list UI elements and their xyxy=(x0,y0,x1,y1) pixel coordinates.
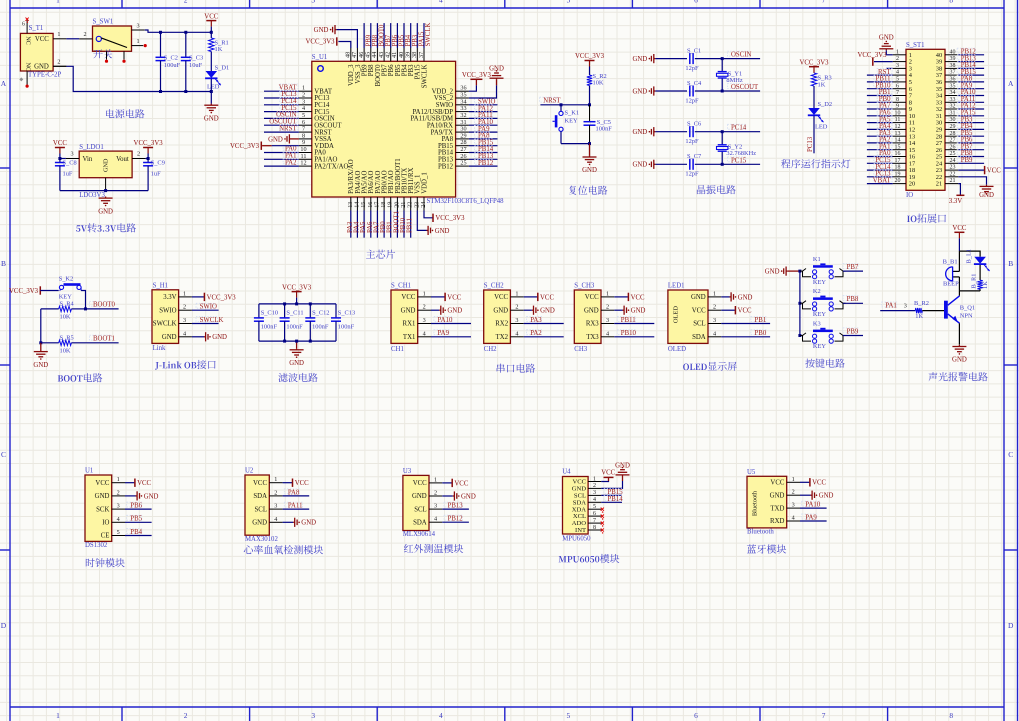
section label 时钟模块 xyxy=(86,558,125,567)
svg-text:K3: K3 xyxy=(813,320,821,327)
power port VCC_3V3 at VDDA pin 9 xyxy=(262,145,272,147)
svg-text:1: 1 xyxy=(593,476,596,482)
svg-text:PB12: PB12 xyxy=(448,516,464,523)
wire OSCIN xyxy=(695,58,760,60)
svg-text:Link: Link xyxy=(153,345,166,352)
wire net SWIO xyxy=(469,104,498,106)
wire net PA15 top xyxy=(416,23,418,48)
ST1 pin 31 xyxy=(945,115,958,117)
wire net SWIO H1 xyxy=(192,309,219,311)
U1 pin 23 VSS_1 xyxy=(416,197,418,211)
ST1 pin 23 xyxy=(945,169,958,171)
svg-text:Vout: Vout xyxy=(116,156,129,163)
svg-text:4: 4 xyxy=(439,711,443,720)
ground GND H1 xyxy=(192,336,204,338)
wire net PA0 ST1 xyxy=(867,156,893,158)
keys left rail xyxy=(799,271,801,335)
svg-text:GND: GND xyxy=(819,493,834,500)
section label OLED显示屏 xyxy=(683,362,737,371)
svg-text:VCC: VCC xyxy=(35,36,49,43)
svg-text:12pF: 12pF xyxy=(685,138,699,145)
S_CH3 pin 1 VCC xyxy=(601,296,614,298)
S_CH2 pin 3 RX2 xyxy=(510,323,523,325)
svg-text:GND: GND xyxy=(631,308,646,315)
svg-text:8: 8 xyxy=(896,97,899,103)
svg-text:S_C10: S_C10 xyxy=(261,310,278,317)
svg-text:S_H1: S_H1 xyxy=(153,283,169,290)
U1 pin 3 PC14 xyxy=(299,104,312,106)
svg-text:S_D2: S_D2 xyxy=(818,101,833,108)
LED1 pin 1 GND xyxy=(708,296,721,298)
svg-text:S_CH3: S_CH3 xyxy=(574,283,595,290)
svg-text:VCC: VCC xyxy=(494,294,508,301)
svg-text:PC15: PC15 xyxy=(731,157,747,164)
svg-text:21: 21 xyxy=(936,181,942,188)
svg-text:B_R2: B_R2 xyxy=(914,300,929,307)
wire net PB9 top xyxy=(363,23,365,48)
svg-text:2: 2 xyxy=(713,304,716,311)
wire net BOOT1 bottom xyxy=(396,211,398,238)
svg-text:2: 2 xyxy=(57,58,60,65)
ST1 pin 11 xyxy=(893,122,906,124)
wire PC14 xyxy=(695,131,760,133)
regulator LDO1 LDO3V3 xyxy=(79,151,132,178)
svg-text:VCC_3V3: VCC_3V3 xyxy=(9,288,39,295)
wire GND rail power circuit xyxy=(53,65,66,67)
ground GND at VSS_2 pin 35 xyxy=(469,85,497,98)
svg-text:S_C8: S_C8 xyxy=(63,160,77,167)
wire LED branch to collector xyxy=(959,290,980,292)
svg-text:2: 2 xyxy=(117,489,120,496)
svg-text:U4: U4 xyxy=(562,469,571,476)
U5 pin 2 GND xyxy=(787,494,800,496)
U1 pin 1 VBAT xyxy=(299,90,312,92)
LDO GND stub and rail xyxy=(105,178,107,191)
svg-text:1: 1 xyxy=(434,476,437,483)
H1 pin 4 GND xyxy=(179,336,192,338)
section label 5V转3.3V电路 xyxy=(76,223,136,232)
svg-text:VCC: VCC xyxy=(137,480,151,487)
U1 pin 9 VDDA xyxy=(299,145,312,147)
svg-text:CE: CE xyxy=(101,533,110,540)
wire net PB1 LED1 xyxy=(721,323,770,325)
wire net PB11 ST1 xyxy=(867,81,893,83)
svg-text:SCL: SCL xyxy=(255,506,267,513)
wire net PB10 S_CH3 xyxy=(614,336,654,338)
svg-text:A: A xyxy=(1008,79,1014,88)
wire net PA9 xyxy=(469,131,498,133)
svg-text:10K: 10K xyxy=(60,348,71,355)
svg-text:100uF: 100uF xyxy=(164,62,181,69)
svg-text:PA2/TX/AO: PA2/TX/AO xyxy=(314,163,348,170)
svg-text:KEY: KEY xyxy=(565,118,579,125)
svg-text:MLX90614: MLX90614 xyxy=(403,531,436,538)
svg-text:PB11: PB11 xyxy=(407,218,414,233)
ST1 pin 12 xyxy=(893,128,906,130)
ST1 pin 33 xyxy=(945,101,958,103)
svg-text:1uF: 1uF xyxy=(63,170,73,177)
svg-text:SDA: SDA xyxy=(253,493,267,500)
svg-text:VCC_3V3: VCC_3V3 xyxy=(134,140,164,147)
ST1 pin 40 xyxy=(945,54,958,56)
wire net NRST xyxy=(264,131,299,133)
wire net PA1 ST1 xyxy=(867,149,893,151)
svg-text:32.768KHz: 32.768KHz xyxy=(726,150,756,157)
svg-text:PB5: PB5 xyxy=(130,516,142,523)
svg-text:PB9: PB9 xyxy=(847,328,859,335)
svg-text:RX2: RX2 xyxy=(495,321,508,328)
svg-text:SCL: SCL xyxy=(693,321,705,328)
svg-text:GND: GND xyxy=(144,493,159,500)
U1 pin 38 PA15 xyxy=(416,48,418,61)
ST1 pin 3 xyxy=(893,67,906,69)
ST1 pin 15 xyxy=(893,149,906,151)
module U3 xyxy=(403,475,429,530)
svg-text:TX3: TX3 xyxy=(586,334,599,341)
U1 pin 34 SWIO xyxy=(456,104,469,106)
wire net PB13 xyxy=(469,158,498,160)
svg-text:RX3: RX3 xyxy=(586,321,599,328)
U3 pin 3 SCL xyxy=(429,508,442,510)
wire net PA8 U2 xyxy=(283,495,310,497)
svg-text:U1: U1 xyxy=(85,468,93,475)
svg-text:VCC: VCC xyxy=(447,294,461,301)
no-connect U4 pin 6 xyxy=(601,515,604,518)
svg-text:IO: IO xyxy=(102,520,109,527)
S_CH1 pin 3 RX1 xyxy=(418,323,431,325)
svg-text:PA2: PA2 xyxy=(530,330,542,337)
svg-text:PB11: PB11 xyxy=(621,317,636,324)
LDO pin 2 xyxy=(132,158,145,160)
ST1 pin 21 xyxy=(945,183,958,185)
U1 pin 10 PA0 xyxy=(299,152,312,154)
svg-text:12pF: 12pF xyxy=(685,65,699,72)
wire net PB6 ST1 right xyxy=(958,142,984,144)
wire T1 VCC to SW1 xyxy=(66,38,79,40)
power port VCC alarm xyxy=(954,231,964,233)
wire net PA10 ST1 right xyxy=(958,95,984,97)
svg-text:VDD_1: VDD_1 xyxy=(421,172,428,194)
wire K2 to BOOT0 xyxy=(81,291,85,309)
wire net PA12 ST1 right xyxy=(958,108,984,110)
wire net PB13 U3 xyxy=(442,508,469,510)
power port VCC_3V3 at VDD_1 pin 24 xyxy=(424,211,433,218)
U5 pin 3 TXD xyxy=(787,507,800,509)
wire net PB10 ST1 xyxy=(867,88,893,90)
U1 pin 41 PB5 xyxy=(396,48,398,61)
svg-text:GND: GND xyxy=(572,486,587,493)
wire net PB12 xyxy=(469,165,498,167)
svg-text:2: 2 xyxy=(515,304,518,311)
ground GND ST1 pin22 xyxy=(958,177,986,185)
capacitor S_C13 100nF xyxy=(335,304,337,318)
svg-text:34: 34 xyxy=(950,90,956,96)
U1 pin 19 PB1/AO xyxy=(390,197,392,211)
svg-text:9: 9 xyxy=(896,104,899,110)
U1 pin 16 PA6/AO xyxy=(370,197,372,211)
svg-text:25: 25 xyxy=(950,151,956,157)
svg-text:VCC: VCC xyxy=(95,480,109,487)
U1 pin 7 NRST xyxy=(299,131,312,133)
S_CH1 pin 4 TX1 xyxy=(418,336,431,338)
wire net NRST reset xyxy=(540,104,589,106)
svg-text:SDA: SDA xyxy=(413,519,427,526)
U1 pin 5 CE xyxy=(112,535,125,537)
svg-text:100nF: 100nF xyxy=(338,324,355,331)
no-connect U4 pin 7 xyxy=(601,522,604,525)
T1 top stub no-connect xyxy=(26,20,28,33)
svg-text:GND: GND xyxy=(289,360,304,367)
junction C2 top xyxy=(159,31,162,34)
svg-text:5: 5 xyxy=(593,504,596,510)
svg-text:1K: 1K xyxy=(982,281,989,289)
U4 pin 5 XDA xyxy=(588,508,601,510)
U1 pin 48 VDD_3 xyxy=(350,48,352,61)
svg-text:1: 1 xyxy=(56,0,60,5)
capacitor S_C4 12pF xyxy=(689,86,691,97)
svg-text:GND: GND xyxy=(98,208,113,215)
ST1 pin 5 xyxy=(893,81,906,83)
U1 pin 27 PB14 xyxy=(456,152,469,154)
S_CH3 pin 3 RX3 xyxy=(601,323,614,325)
svg-text:20: 20 xyxy=(909,181,915,188)
wire net PA5 bottom xyxy=(363,211,365,238)
svg-text:40: 40 xyxy=(950,49,956,55)
svg-text:CH1: CH1 xyxy=(391,346,404,353)
svg-text:K2: K2 xyxy=(813,288,821,295)
svg-text:1: 1 xyxy=(792,476,795,483)
ST1 pin 14 xyxy=(893,142,906,144)
svg-text:1: 1 xyxy=(183,290,186,297)
svg-text:S_SW1: S_SW1 xyxy=(93,19,114,26)
power port VCC_3V3 ST1 pin2 xyxy=(874,61,893,63)
section label 程序运行指示灯 xyxy=(781,159,850,168)
svg-text:GND: GND xyxy=(435,228,450,235)
ground GND S_C6 xyxy=(654,131,655,133)
ground GND S_C7 xyxy=(654,163,655,165)
svg-text:U3: U3 xyxy=(403,468,412,475)
svg-text:DS1302: DS1302 xyxy=(85,542,108,549)
button K1 KEY xyxy=(560,103,563,106)
wire net PA11 xyxy=(469,117,498,119)
wire net BOOT1 xyxy=(71,342,118,344)
U1 pin 14 PA4/AO xyxy=(356,197,358,211)
wire net PA9 U5 xyxy=(800,520,827,522)
module U1 xyxy=(85,475,112,541)
svg-text:100nF: 100nF xyxy=(312,324,329,331)
section label 按键电路 xyxy=(805,359,844,368)
svg-text:VCC_3V3: VCC_3V3 xyxy=(306,39,336,46)
svg-text:VCC: VCC xyxy=(253,480,267,487)
svg-text:VCC: VCC xyxy=(987,168,1001,175)
svg-text:GND: GND xyxy=(412,493,427,500)
wire net SWCLK H1 xyxy=(192,323,219,325)
svg-text:NRST: NRST xyxy=(279,125,297,132)
svg-text:1: 1 xyxy=(713,290,716,297)
wire net SWCLK top xyxy=(423,23,425,48)
module S_CH3 xyxy=(574,290,601,343)
svg-text:2: 2 xyxy=(593,483,596,489)
power port VCC S_CH3 xyxy=(614,296,628,298)
svg-text:NC: NC xyxy=(25,36,32,45)
svg-text:1: 1 xyxy=(56,711,60,720)
S_CH2 pin 1 VCC xyxy=(510,296,523,298)
ground GND S_CH2 xyxy=(524,309,532,311)
svg-text:XCL: XCL xyxy=(573,513,586,520)
svg-text:3.3V: 3.3V xyxy=(949,198,962,205)
svg-text:GND: GND xyxy=(615,463,630,470)
junction C2 bottom xyxy=(159,90,162,93)
svg-text:LED: LED xyxy=(207,83,220,90)
ST1 pin 28 xyxy=(945,135,958,137)
wire net PA1 xyxy=(264,158,299,160)
svg-text:VCC: VCC xyxy=(585,294,599,301)
svg-text:SWIO: SWIO xyxy=(200,304,217,311)
power port VCC_3V3 led xyxy=(809,66,819,68)
svg-text:TYPE-C-2P: TYPE-C-2P xyxy=(28,71,61,78)
svg-text:S_ST1: S_ST1 xyxy=(906,42,925,49)
svg-text:10uF: 10uF xyxy=(189,62,203,69)
wire net PB7 ST1 right xyxy=(958,149,984,151)
svg-text:28: 28 xyxy=(950,131,956,137)
ST1 pin 4 xyxy=(893,74,906,76)
svg-text:S_K2: S_K2 xyxy=(59,276,74,283)
svg-text:B_L1: B_L1 xyxy=(966,249,973,264)
svg-text:3: 3 xyxy=(117,503,120,510)
svg-text:GND: GND xyxy=(447,308,462,315)
wire net PC13 xyxy=(264,97,299,99)
wire net PA0 xyxy=(264,152,299,154)
svg-text:1: 1 xyxy=(606,290,609,297)
U1 pin 12 PA2/TX/AO xyxy=(299,165,312,167)
wire net PA2 S_CH2 xyxy=(524,336,564,338)
ground GND at VSSA pin 8 xyxy=(291,138,299,140)
svg-text:Bluetooth: Bluetooth xyxy=(752,490,759,516)
svg-text:VCC: VCC xyxy=(454,480,468,487)
svg-text:3.3V: 3.3V xyxy=(163,294,176,301)
wire net PB1 bottom xyxy=(390,211,392,238)
svg-text:VCC_3V3: VCC_3V3 xyxy=(207,294,237,301)
svg-text:GND: GND xyxy=(461,493,476,500)
U1 pin 17 PA7/AO xyxy=(376,197,378,211)
svg-text:12pF: 12pF xyxy=(685,97,699,104)
svg-text:GND: GND xyxy=(584,307,599,314)
svg-text:SWCLK: SWCLK xyxy=(425,23,432,47)
svg-text:S_U1: S_U1 xyxy=(312,54,328,61)
power port VCC_3V3 reset xyxy=(585,60,595,62)
module S_CH2 xyxy=(484,290,511,343)
LED1 pin 2 VCC xyxy=(708,309,721,311)
svg-text:5: 5 xyxy=(567,0,571,5)
svg-text:PB0: PB0 xyxy=(755,330,767,337)
wire net PB0 LED1 xyxy=(721,336,770,338)
ST1 pin 29 xyxy=(945,128,958,130)
svg-text:22: 22 xyxy=(950,171,956,177)
wire net PB10 bottom xyxy=(403,211,405,238)
svg-text:BEEP: BEEP xyxy=(943,280,959,287)
wire net PB8 xyxy=(843,302,863,304)
svg-text:29: 29 xyxy=(950,124,956,130)
U3 pin 2 GND xyxy=(429,495,442,497)
svg-text:PB12: PB12 xyxy=(438,163,454,170)
svg-text:VCC: VCC xyxy=(952,225,966,232)
svg-text:TX2: TX2 xyxy=(496,334,509,341)
wire net PA5 ST1 xyxy=(867,122,893,124)
U1 pin 4 IO xyxy=(112,521,125,523)
wire net PA1 alarm xyxy=(882,302,897,307)
svg-text:3: 3 xyxy=(136,22,139,29)
svg-text:S_C4: S_C4 xyxy=(687,80,702,87)
svg-text:PB6: PB6 xyxy=(130,503,142,510)
T1 pin 1 xyxy=(53,38,66,40)
wire net PC14 ST1 xyxy=(867,169,893,171)
svg-text:GND: GND xyxy=(493,307,508,314)
ST1 pin 1 xyxy=(893,54,906,56)
svg-text:3: 3 xyxy=(70,151,73,158)
resistor R4 10K xyxy=(41,308,59,310)
svg-text:NPN: NPN xyxy=(960,312,973,319)
svg-text:VCC: VCC xyxy=(413,480,427,487)
wire net PB7 top xyxy=(383,23,385,48)
wire net OSCOUT xyxy=(264,124,299,126)
svg-text:PB10: PB10 xyxy=(621,330,637,337)
svg-text:A: A xyxy=(1,79,7,88)
svg-text:3: 3 xyxy=(183,317,186,324)
section label 声光报警电路 xyxy=(928,372,987,381)
wire OSCOUT xyxy=(695,90,760,92)
svg-text:S_R4: S_R4 xyxy=(60,300,75,307)
svg-text:S_C1: S_C1 xyxy=(687,47,701,54)
section label MPU6050模块 xyxy=(559,554,620,563)
svg-text:10K: 10K xyxy=(593,80,604,87)
wire net PC14 xyxy=(264,104,299,106)
svg-text:2: 2 xyxy=(83,31,86,38)
wire net PC15 ST1 xyxy=(867,162,893,164)
svg-text:2: 2 xyxy=(183,304,186,311)
power port VCC S_CH2 xyxy=(524,296,538,298)
section label 电源电路 xyxy=(106,109,144,118)
U1 pin 13 PA3/RX/AO xyxy=(350,197,352,211)
svg-text:3: 3 xyxy=(274,503,277,510)
S_CH2 pin 2 GND xyxy=(510,309,523,311)
wire net PB12 U3 xyxy=(442,521,469,523)
ST1 pin 7 xyxy=(893,95,906,97)
svg-text:1: 1 xyxy=(57,31,60,38)
U2 pin 1 VCC xyxy=(269,482,282,484)
svg-text:Vin: Vin xyxy=(83,156,93,163)
power port VCC U1 xyxy=(125,482,134,484)
ST1 pin 2 xyxy=(893,61,906,63)
wire net PA11 ST1 right xyxy=(958,101,984,103)
svg-text:GND: GND xyxy=(204,115,219,122)
SW1 bottom stub left no-connect xyxy=(106,51,108,59)
svg-text:GND: GND xyxy=(770,492,785,499)
U4 pin 1 VCC xyxy=(588,481,601,483)
S_CH2 pin 4 TX2 xyxy=(510,336,523,338)
U3 pin 1 VCC xyxy=(429,482,442,484)
power port VCC xyxy=(206,20,216,22)
ground GND LED1 xyxy=(721,296,729,298)
ground GND U3 xyxy=(442,495,453,497)
svg-text:1: 1 xyxy=(274,476,277,483)
wire net VBAT xyxy=(264,90,299,92)
svg-text:5: 5 xyxy=(896,77,899,83)
U1 pin 1 VCC xyxy=(112,482,125,484)
section label IO拓展口 xyxy=(907,214,946,223)
svg-text:GND: GND xyxy=(212,334,227,341)
svg-text:RX1: RX1 xyxy=(403,321,416,328)
wire net PA7 ST1 xyxy=(867,108,893,110)
